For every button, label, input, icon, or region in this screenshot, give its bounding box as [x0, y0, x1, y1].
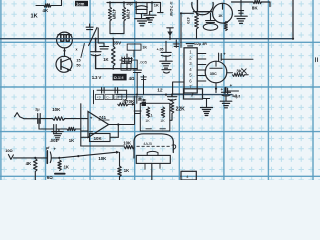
transistor Q1 body: [56, 56, 72, 72]
tube V4 pin 2: [144, 163, 146, 169]
capacitor C12 plates: [206, 21, 215, 23]
ladder bottom marks: [146, 128, 166, 130]
label 0.1M block: [113, 74, 127, 81]
terminal bar: [55, 173, 65, 175]
wire R2 bottom: [109, 21, 111, 34]
svg-text:4K: 4K: [26, 161, 32, 166]
transistor Q1 emitter: [61, 66, 71, 70]
svg-text:x: x: [76, 48, 78, 52]
svg-text:55V: 55V: [113, 41, 122, 46]
diode D1: [167, 28, 173, 39]
capacitor C18 plates: [134, 96, 137, 103]
resistor R13 1K: [58, 160, 61, 171]
capacitor C24 electrolytic: [167, 95, 176, 101]
IC U2 top cap marks: [186, 44, 194, 46]
wire C7 stem down: [95, 55, 97, 69]
resistor R10 10K: [124, 145, 134, 148]
capacitor C14 at IC top-left: [174, 40, 179, 47]
resistor R2 470R: [108, 7, 111, 21]
svg-text:7: 7: [191, 93, 194, 99]
arrow right small: [138, 99, 146, 102]
label + (C24): [169, 98, 172, 103]
svg-text:1K: 1K: [124, 168, 129, 173]
label 1K: [31, 14, 38, 20]
input caret: [15, 113, 38, 119]
label 1K (R13): [64, 164, 69, 169]
label x2: [76, 48, 78, 52]
svg-text:1K: 1K: [142, 46, 147, 50]
small box B4: [121, 64, 131, 71]
svg-text:.005: .005: [139, 60, 148, 65]
junction dots bus: [112, 68, 128, 70]
label 4C: [129, 76, 135, 81]
node base feed: [180, 12, 182, 14]
label uf +: [46, 146, 57, 152]
wire rail-2 double: [118, 96, 143, 98]
svg-text:4K: 4K: [43, 8, 49, 13]
ground G5: [201, 99, 213, 116]
capacitor C3 plates above V3: [219, 53, 222, 61]
tube V4 pin 1: [151, 163, 153, 180]
svg-text:4AJ5: 4AJ5: [143, 142, 152, 146]
resistor R1 4K (horizontal): [44, 4, 51, 7]
svg-text:1/2μ 3R: 1/2μ 3R: [194, 42, 207, 46]
label .005: [139, 60, 148, 65]
label 4.7: [232, 94, 237, 98]
svg-text:6Ω: 6Ω: [47, 175, 53, 180]
label 2u: [35, 108, 40, 112]
label 9: [120, 76, 122, 80]
mark plus-box: [139, 97, 146, 106]
junction dots HT rail: [95, 38, 295, 40]
wire C21 right: [131, 59, 137, 61]
label + (C4): [230, 83, 233, 88]
svg-text:.05: .05: [122, 99, 127, 103]
capacitor C4 output: [225, 88, 228, 95]
box B2: [181, 171, 196, 180]
wire B3 stub: [133, 50, 135, 57]
label 470K: [124, 99, 135, 104]
label 15/50: [76, 44, 84, 68]
svg-text:1K: 1K: [69, 138, 74, 143]
tube V1 envelope: [57, 32, 73, 48]
label 1K top: [154, 2, 159, 7]
wire pin12 loop: [173, 82, 184, 94]
capacitor C8 electrolytic: [122, 54, 132, 69]
label + (C5): [221, 87, 224, 92]
label 4K (R12): [26, 161, 32, 166]
oval winding: [203, 24, 217, 31]
label - input: [90, 131, 93, 133]
label 12 ... none: [0, 0, 1, 1]
wire lower branch: [39, 128, 54, 130]
resistor R14: [118, 103, 128, 106]
wire x137 drop2: [136, 73, 138, 95]
svg-text:10K: 10K: [52, 107, 61, 112]
label 1.3V row: [92, 75, 102, 80]
label 10K (wiper): [98, 156, 107, 161]
ground top right: [235, 16, 247, 23]
label 6uf: [234, 94, 240, 98]
wire base row: [181, 12, 193, 14]
tube V4 pin 3: [159, 163, 161, 168]
wire x143.5 drop: [143, 75, 145, 94]
svg-text:8K: 8K: [252, 5, 259, 10]
tube V3 internal: [210, 61, 222, 68]
label +.1: [147, 113, 152, 117]
wire C12 stub: [210, 13, 212, 23]
wire x93.5 drop: [93, 90, 95, 104]
ground G7: [52, 129, 63, 140]
resistor R18: [146, 107, 149, 118]
transistor Q2 top stub: [196, 0, 198, 12]
svg-text:C−: C−: [106, 96, 110, 100]
box R9 10K: [90, 134, 111, 142]
wire chain top: [165, 41, 167, 52]
wire V3 cathode: [215, 83, 217, 93]
svg-text:470R: 470R: [112, 9, 117, 20]
wire C11 right: [51, 157, 59, 159]
label V2 1N: [218, 14, 223, 18]
transistor Q1 collector: [61, 58, 71, 62]
tube V4 key bump: [147, 151, 158, 155]
node V3 cathode: [215, 88, 217, 90]
capacitor C23 bars: [141, 77, 147, 80]
capacitor C6 plates: [86, 24, 93, 30]
wire bus y68.6: [96, 68, 138, 70]
mark x above R5: [242, 69, 247, 74]
resistor R20 22K: [170, 100, 174, 121]
svg-text:4·7ΩW: 4·7ΩW: [169, 2, 174, 17]
wire x119.5 drop: [119, 152, 121, 166]
svg-text:10Ω: 10Ω: [5, 148, 12, 153]
wire bottom input: [13, 157, 47, 159]
wire R4 to corner: [262, 2, 271, 7]
wire input top-left: [36, 5, 44, 7]
wire x137 drop: [136, 60, 138, 70]
svg-text:50: 50: [76, 64, 80, 68]
label 1K (R8): [69, 138, 74, 143]
svg-text:12: 12: [157, 87, 163, 93]
wire box to output: [110, 136, 118, 138]
svg-text:1K: 1K: [103, 57, 108, 62]
capacitor C11 electrolytic: [47, 151, 51, 164]
ground C5: [220, 101, 232, 108]
wire HT rail: [0, 38, 293, 40]
wire R11 bottom: [119, 177, 121, 181]
svg-text:1.3 V: 1.3 V: [92, 75, 102, 80]
wire C20 link: [120, 59, 129, 61]
label +.05: [157, 47, 164, 51]
wire C7 stem up: [95, 39, 97, 52]
capacitor C7 electrolytic: [91, 52, 101, 56]
wire corner x126.6: [126, 90, 128, 99]
wire output: [109, 124, 134, 126]
wire wiper slanted: [59, 151, 119, 158]
svg-text:10K: 10K: [98, 156, 107, 161]
label 22K: [176, 106, 186, 112]
wire y90.3: [97, 89, 127, 91]
wire V1 cathode down: [64, 48, 66, 56]
label 10ohm: [5, 148, 12, 153]
box ladder: [140, 103, 170, 131]
resistor R12 vertical: [34, 159, 38, 181]
label .05: [122, 99, 127, 103]
resistor R5 3K: [227, 73, 248, 77]
wire box to column: [81, 136, 90, 138]
resistor R7 10K: [53, 117, 65, 121]
svg-text:4Ω: 4Ω: [129, 76, 135, 81]
test box +9: [96, 94, 104, 99]
capacitor C2 plates: [161, 52, 171, 56]
label 35C (V3): [210, 72, 217, 76]
wire R1 to corner: [51, 0, 62, 6]
wire C3 right: [221, 58, 253, 60]
capacitor C9 2u: [38, 114, 41, 124]
transistor Q2 body: [192, 2, 213, 15]
capacitor C22 plates: [133, 70, 142, 72]
wire inverting input: [81, 130, 88, 132]
svg-text:741: 741: [99, 115, 107, 120]
svg-text:470R: 470R: [126, 9, 131, 20]
wire R8 to column: [76, 128, 81, 130]
capacitor C16 plates: [102, 88, 105, 94]
op-amp U1 triangle: [88, 112, 109, 138]
label 470R (R3): [126, 9, 131, 20]
label 12: [157, 87, 163, 93]
svg-text:10μ: 10μ: [126, 2, 133, 6]
tube V4 dash line: [137, 145, 172, 147]
svg-text:1K: 1K: [64, 164, 69, 169]
wire x134.5 drop: [134, 104, 136, 124]
transistor Q2 base bar: [194, 11, 212, 13]
wire branch down x39: [38, 119, 40, 129]
wire step: [98, 28, 104, 46]
capacitor C10 .001: [54, 125, 57, 134]
wire top rail: [107, 2, 161, 4]
svg-text:1K: 1K: [31, 14, 38, 20]
resistor R6 vertical: [112, 39, 116, 69]
label 470 (R16): [186, 17, 191, 24]
tube V4 hook: [172, 145, 176, 150]
capacitor C19 bars: [134, 111, 141, 114]
label 3K: [236, 68, 242, 73]
tube V3 envelope: [205, 61, 227, 83]
test box C-: [105, 94, 113, 99]
label 55V: [113, 41, 122, 46]
polarity mark: [162, 70, 171, 73]
resistor R3 470R: [122, 7, 125, 21]
tube V2 grid stub: [222, 3, 224, 9]
label 1K (B3): [142, 46, 147, 50]
svg-text:1cm: 1cm: [76, 2, 85, 7]
tube V4 base: [136, 155, 170, 163]
capacitor C17 plates: [115, 88, 118, 94]
tube V4 envelope: [134, 134, 173, 158]
capacitor C15 plates: [100, 47, 109, 49]
label 8K: [252, 5, 259, 10]
small box B3: [127, 44, 141, 50]
wire C2 bottom: [165, 56, 167, 61]
wire feedback drop: [117, 125, 119, 138]
label 10u: [126, 2, 133, 6]
wire C9 to R7: [40, 118, 52, 120]
node output: [117, 123, 119, 125]
svg-text:22K: 22K: [176, 106, 186, 112]
label 1K mid: [103, 57, 108, 62]
label 4AJ5: [143, 142, 152, 146]
wire C10 to R8: [56, 128, 67, 130]
svg-text:1K: 1K: [145, 119, 150, 123]
wire C1 right leg: [146, 3, 148, 14]
svg-text:9: 9: [120, 76, 122, 80]
svg-text:2μ: 2μ: [35, 108, 40, 112]
wire C1 left leg: [135, 3, 137, 14]
label 1cm block: [75, 1, 88, 7]
capacitor C13 ticks: [238, 11, 243, 14]
tube V1 plate bar: [58, 34, 71, 36]
wire R3 bottom: [123, 21, 125, 34]
wire feedback bottom: [81, 145, 125, 147]
svg-text:10K: 10K: [123, 141, 132, 146]
wire 1K drop: [150, 3, 152, 16]
ground C2: [160, 61, 172, 68]
wire rail-2: [117, 94, 233, 96]
svg-text:1K: 1K: [160, 119, 165, 123]
capacitor C21 plates: [129, 57, 132, 63]
IC U2 outline: [184, 48, 197, 93]
mark right edge: [315, 58, 317, 62]
resistor R19: [161, 107, 164, 118]
label R19 1K: [160, 119, 165, 123]
wire R2-R3 bottom link: [110, 33, 124, 35]
major grid vertical lines: [1, 0, 313, 180]
label 470R (R2): [112, 9, 117, 20]
svg-text:35C: 35C: [210, 72, 217, 76]
svg-text:+: +: [90, 116, 93, 121]
svg-text:470: 470: [186, 17, 191, 24]
label 10K (R10): [123, 141, 132, 146]
node V1-Q1: [63, 50, 65, 52]
wire feedback column x80.8: [80, 104, 82, 146]
IC U2 right pin leads: [197, 54, 206, 82]
label 1/2u 3R: [194, 42, 207, 46]
svg-text:Ω.1M: Ω.1M: [114, 75, 125, 80]
wire base feed vertical x181: [180, 13, 182, 47]
wire C1 bottom link: [136, 14, 147, 19]
transistor Q1 base bar: [60, 59, 62, 69]
label 4K: [43, 8, 49, 13]
wire noninverting feed: [65, 118, 88, 120]
svg-text:+.05: +.05: [157, 47, 164, 51]
label .001: [50, 138, 59, 143]
graph paper background: [0, 0, 320, 180]
wire grid drop x241: [240, 0, 242, 16]
svg-text:1K: 1K: [154, 2, 159, 7]
label vertical column: [169, 2, 174, 17]
junction dots rail-2: [136, 94, 173, 96]
wire top right: [232, 1, 254, 3]
svg-text:15: 15: [76, 59, 80, 63]
IC U2 pin numbers 1-7: [189, 50, 192, 90]
resistor R17 small: [224, 22, 227, 31]
capacitor C1 plates: [136, 6, 148, 10]
wire R14 arrow: [128, 103, 135, 106]
ground stub 1K: [144, 15, 156, 22]
label 1K (R11): [124, 168, 129, 173]
label 6ohm: [47, 175, 53, 180]
wire HT feed x293: [292, 0, 294, 39]
capacitor C5 6uF: [221, 87, 230, 101]
minor grid crosses: [2, 1, 320, 182]
resistor R11 1K: [118, 166, 122, 177]
wire slash Q: [89, 28, 97, 46]
svg-text:.001: .001: [50, 138, 59, 143]
wire R3 top: [123, 3, 125, 8]
svg-text:10K: 10K: [94, 136, 103, 141]
connector box 7: [184, 89, 203, 99]
tube V1 prongs: [61, 35, 69, 42]
resistor R8 1K: [67, 127, 76, 130]
wire R2 top: [109, 3, 111, 8]
junction dots top rail: [109, 1, 153, 3]
svg-text:1K: 1K: [218, 14, 223, 18]
input V mark: [8, 155, 13, 160]
node wiper dots: [34, 155, 79, 159]
svg-text:10: 10: [115, 96, 119, 100]
svg-text:6μf: 6μf: [234, 94, 240, 98]
wire C4 right: [228, 90, 239, 92]
major grid horizontal lines: [0, 42, 320, 176]
label + (C3): [223, 52, 226, 57]
label R18 1K: [145, 119, 150, 123]
label 10K (R7): [52, 107, 61, 112]
resistor R4 8K: [253, 0, 262, 3]
test box 10: [114, 94, 122, 99]
wire stub x160: [158, 3, 163, 13]
label 741: [99, 115, 109, 120]
resistor R16 470 vertical: [195, 12, 199, 39]
tube V2 envelope: [213, 3, 233, 23]
label + input: [90, 116, 93, 121]
svg-text:+9: +9: [97, 96, 101, 100]
ground C1: [135, 19, 149, 26]
capacitor C20 plates: [122, 57, 125, 63]
